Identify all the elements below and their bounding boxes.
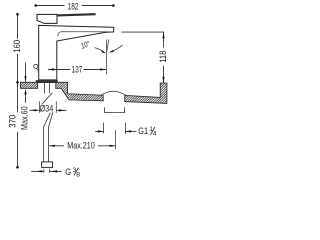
leader slash	[42, 93, 52, 105]
svg-text:137: 137	[72, 64, 83, 74]
svg-text:Max.210: Max.210	[67, 141, 95, 151]
svg-text:8: 8	[76, 171, 80, 178]
dimension Ø34 ticks	[39, 101, 41, 113]
supply pipe through counter	[44, 83, 46, 94]
drain tailpipe right line	[124, 123, 126, 134]
10 degree right arc with arrow	[111, 45, 123, 52]
faucet handle cap	[37, 14, 57, 23]
drain flange below basin	[105, 107, 125, 112]
G 3/8 extension ticks	[43, 169, 45, 173]
dimension Max.60 upper arrow	[25, 62, 27, 81]
dimension Max.210	[49, 145, 64, 147]
svg-text:Max.60: Max.60	[20, 106, 30, 130]
dimension 182 top	[36, 5, 114, 7]
faucet body outline	[39, 25, 114, 80]
dimension Ø34 arrows	[29, 109, 39, 111]
countertop left section (hatched)	[20, 82, 37, 88]
svg-text:Ø34: Ø34	[40, 102, 54, 113]
spout inner line	[58, 32, 113, 37]
G1 1/4 arrows	[95, 130, 103, 132]
dimension Max.60 lower arrow	[25, 93, 27, 102]
10 degree reference vertical line	[106, 40, 108, 75]
drain tailpipe left line	[103, 123, 105, 134]
pop-up drain cap	[101, 91, 126, 95]
svg-text:G1: G1	[138, 125, 148, 136]
svg-text:370: 370	[7, 114, 18, 127]
dimension 160 / 370 vertical line	[17, 14, 19, 167]
dimension 118	[163, 33, 165, 48]
base plate	[36, 80, 58, 83]
svg-text:118: 118	[157, 50, 168, 63]
10 degree tilted line	[107, 40, 109, 53]
10 degree left arc with arrow	[95, 48, 105, 53]
G1 1/4 label	[138, 125, 157, 137]
hose end connector	[42, 162, 53, 168]
faucet handle lever	[57, 14, 96, 15]
svg-text:4: 4	[153, 131, 157, 138]
detail circle on faucet body	[34, 64, 38, 68]
svg-text:182: 182	[68, 2, 79, 12]
countertop right of faucet + basin step + left bottom band (hatched)	[56, 82, 103, 101]
svg-text:160: 160	[11, 39, 22, 52]
svg-text:G: G	[65, 166, 71, 177]
flexible hose s-curve	[44, 113, 51, 127]
dimension Max.210 extension line	[115, 130, 117, 149]
flexible hose lines	[43, 127, 45, 162]
dimension 118 extension line from spout tip	[122, 31, 165, 33]
dimension 137	[48, 69, 70, 71]
G 3/8 label	[65, 166, 80, 178]
G 3/8 arrows	[31, 170, 44, 172]
basin bottom right band + right rim (hatched)	[125, 83, 167, 103]
